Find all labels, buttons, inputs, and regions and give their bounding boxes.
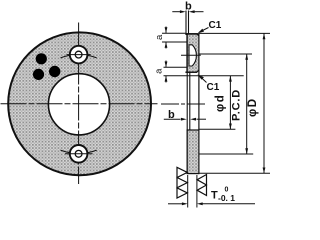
phi-D top extension line <box>199 32 270 34</box>
disc outer circle (front view, toned fill) <box>8 32 151 175</box>
b dimension (top): extension + dimension line <box>172 11 183 13</box>
phi-D bottom extension line <box>200 172 271 174</box>
section view: left thin line 2 top segment <box>188 11 190 36</box>
phi-d top extension line (also lower a) <box>164 75 244 77</box>
section lower block <box>187 130 199 174</box>
svg-text:b: b <box>185 0 192 12</box>
svg-text:P.C.D: P.C.D <box>231 89 243 121</box>
top hole counterbore ring <box>70 46 88 64</box>
PCD dimension line <box>246 54 248 154</box>
upper a dimension line + outside arrows <box>165 27 167 33</box>
section view: left thin line 2 middle segment <box>189 73 191 131</box>
bottom hole horizontal tick <box>65 153 93 155</box>
PCD top extension line <box>200 53 253 55</box>
b dimension (middle): shafts + arrows <box>164 118 181 120</box>
section view: right face line <box>198 34 200 174</box>
b mid right arrow <box>190 118 196 121</box>
svg-text:a: a <box>154 68 165 74</box>
pitch circle arc at bottom hole <box>61 150 97 153</box>
T extension line right <box>196 175 198 208</box>
lower a dimension extension lines <box>164 66 188 68</box>
svg-text:b: b <box>168 109 175 121</box>
upper block bottom edge <box>185 71 197 73</box>
phi-d bottom extension line <box>200 128 236 130</box>
top hole <box>75 51 82 58</box>
filled hole 3 (right) <box>49 66 60 77</box>
section lower block left edge band <box>187 130 189 174</box>
b top right arrow <box>189 10 195 13</box>
C1 upper leader <box>199 28 209 33</box>
pitch circle arc at top hole <box>61 54 97 57</box>
section upper block left edge band <box>186 33 188 72</box>
upper a dimension extension lines <box>162 32 187 34</box>
filled hole 1 (upper) <box>36 53 47 64</box>
svg-text:C1: C1 <box>209 20 222 31</box>
finish triangles right (2) <box>197 175 206 186</box>
section view: left thin line 1 top segment <box>185 11 187 36</box>
upper block top edge <box>185 33 199 35</box>
C1 lower leader <box>199 76 207 83</box>
svg-text:a: a <box>154 34 165 40</box>
phi-D dimension line <box>263 33 265 173</box>
top hole horizontal tick <box>67 54 91 56</box>
notch center tick <box>181 54 201 56</box>
lower a dimension line + outside arrows <box>165 61 167 67</box>
section upper block <box>187 34 199 72</box>
section view: left thin line 1 middle segment <box>186 73 188 131</box>
b mid left arrow <box>181 118 187 121</box>
T extension line left <box>187 175 189 208</box>
counterbore notch (section, D-shape) <box>189 45 196 66</box>
svg-text:φD: φD <box>247 97 259 117</box>
svg-text:C1: C1 <box>207 82 220 93</box>
finish triangles left (3) <box>177 167 187 177</box>
b top left arrow <box>180 10 186 13</box>
svg-text:T: T <box>211 190 218 202</box>
svg-text:φd: φd <box>215 94 227 112</box>
bottom hole counterbore ring <box>70 145 88 163</box>
T dimension line + arrows <box>168 203 183 205</box>
horizontal centerline (front view) <box>1 103 158 105</box>
section horizontal centerline <box>161 103 207 105</box>
bore phi-d (front view) <box>48 74 109 135</box>
filled hole 2 (lower-left) <box>33 69 44 80</box>
phi-d dimension line <box>229 76 231 130</box>
vertical centerline <box>78 23 80 185</box>
PCD bottom extension line <box>200 153 254 155</box>
bottom hole <box>75 150 82 157</box>
svg-text:-0. 1: -0. 1 <box>218 193 235 203</box>
